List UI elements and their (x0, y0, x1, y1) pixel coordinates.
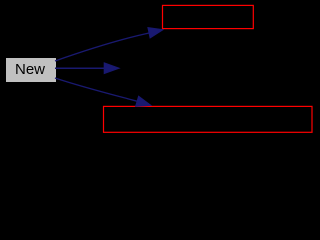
edge New -> bottom node (wire) (55, 78, 151, 106)
svg-text:New: New (15, 61, 45, 78)
edge New -> top node (wire) (55, 28, 163, 61)
edge New -> middle (hidden) node (wire) (55, 63, 119, 74)
node top (truncated, red box) (163, 5, 254, 28)
node bottom (truncated, red box) (104, 106, 313, 132)
node New (current node, grey box) (6, 58, 56, 82)
